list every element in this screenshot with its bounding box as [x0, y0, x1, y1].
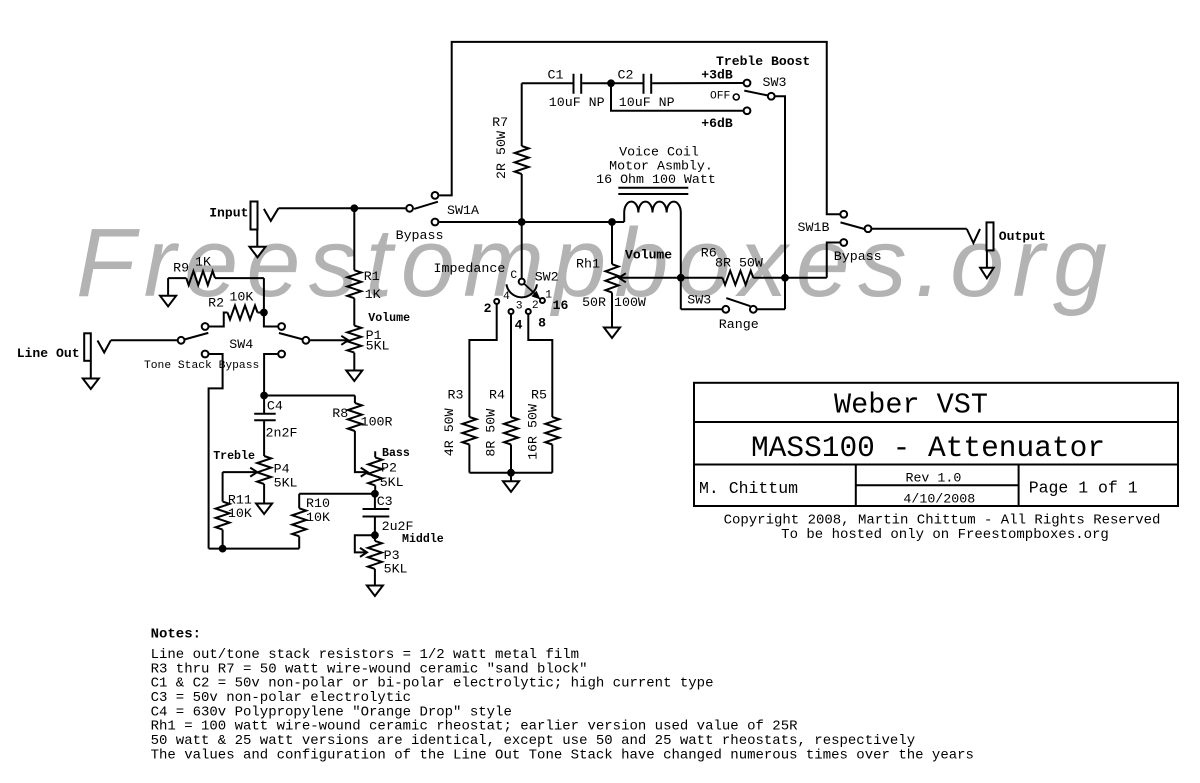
svg-text:10uF NP: 10uF NP — [549, 95, 605, 110]
svg-text:R4: R4 — [489, 388, 505, 403]
svg-text:4: 4 — [503, 291, 510, 303]
wire R5 bottom lead — [551, 445, 553, 473]
potentiometer P1 — [347, 326, 361, 353]
svg-text:4/10/2008: 4/10/2008 — [903, 491, 975, 506]
resistor R6 — [723, 271, 754, 285]
wire R9 to R2 junction — [263, 278, 265, 312]
svg-text:Bass: Bass — [382, 447, 410, 460]
wire SW1B common to output — [871, 228, 966, 230]
wire line out to SW4 — [111, 339, 177, 341]
svg-text:5KL: 5KL — [366, 339, 390, 354]
wire R11 bottom lead — [222, 530, 224, 549]
svg-text:8R 50W: 8R 50W — [715, 256, 763, 271]
node R11/bottom rail junction — [219, 545, 226, 552]
svg-text:Tone Stack Bypass: Tone Stack Bypass — [144, 360, 259, 372]
svg-text:10K: 10K — [306, 510, 330, 525]
svg-text:The values and configuration o: The values and configuration of the Line… — [151, 747, 974, 763]
switch SW4 right lever — [279, 333, 304, 340]
svg-text:Rh1: Rh1 — [576, 257, 600, 272]
title block vertical divider right — [1018, 465, 1020, 507]
wire Rh1 wiper to R6 — [620, 277, 723, 279]
wire bottom rail to ground — [510, 473, 512, 482]
svg-text:C4: C4 — [267, 399, 283, 414]
node C4/R8 junction — [261, 392, 268, 399]
svg-text:2: 2 — [532, 300, 539, 312]
switch SW1A top contact — [432, 192, 439, 199]
switch SW2 pin 3 contact — [509, 309, 514, 314]
svg-text:10K: 10K — [229, 290, 253, 305]
jack J2 Line Out sleeve — [84, 333, 91, 361]
svg-text:C2: C2 — [618, 68, 634, 83]
svg-text:4R 50W: 4R 50W — [442, 408, 457, 456]
svg-text:5KL: 5KL — [274, 476, 298, 491]
wire SW3 range to R6 node — [757, 308, 785, 310]
jack J1 Input tip contact — [264, 208, 279, 221]
wire R4 bottom lead — [510, 445, 512, 473]
wire P4 wiper from R11 — [223, 471, 256, 473]
wire C3 bottom lead — [374, 517, 376, 536]
svg-text:Bypass: Bypass — [834, 249, 882, 264]
svg-text:2n2F: 2n2F — [266, 426, 298, 441]
wire P2 node to R10 — [299, 493, 375, 495]
svg-text:Bypass: Bypass — [396, 228, 444, 243]
svg-text:R2: R2 — [208, 296, 224, 311]
svg-text:16: 16 — [553, 298, 569, 313]
switch SW4 left common contact — [178, 337, 185, 344]
switch SW3 range right contact — [750, 306, 757, 313]
resistor R4 — [504, 417, 518, 445]
svg-text:SW4: SW4 — [229, 337, 253, 352]
wire P3 top lead — [374, 535, 376, 541]
node C3/P3 junction — [372, 532, 379, 539]
jack J3 Output tip contact — [967, 229, 980, 243]
wire input node to R1 — [353, 208, 355, 270]
node P2/C3/R10 junction — [372, 490, 379, 497]
svg-text:16R 50W: 16R 50W — [525, 404, 540, 460]
svg-text:1K: 1K — [365, 287, 381, 302]
svg-text:Treble: Treble — [213, 450, 255, 463]
svg-text:100R: 100R — [361, 415, 393, 430]
svg-text:R8: R8 — [332, 406, 348, 421]
switch SW3 range lever — [726, 298, 750, 306]
arrow P3 wiper — [360, 548, 367, 557]
wire R8 to P2 wiper — [355, 431, 367, 472]
wire R9 right lead — [215, 277, 264, 279]
resistor R5 — [545, 417, 559, 445]
svg-text:10uF NP: 10uF NP — [619, 95, 675, 110]
svg-text:MASS100 - Attenuator: MASS100 - Attenuator — [751, 431, 1105, 465]
wire voice coil left lead — [623, 213, 625, 223]
resistor R9 — [186, 271, 215, 285]
svg-text:SW3: SW3 — [687, 293, 711, 308]
node voice coil/Rh1 wiper junction — [677, 274, 684, 281]
svg-text:4: 4 — [515, 318, 523, 333]
potentiometer P3 — [368, 541, 382, 569]
ground below output jack — [986, 250, 988, 267]
switch SW1B lever — [841, 222, 865, 229]
switch SW2 wafer arc — [506, 284, 537, 297]
ground below P4 — [256, 504, 272, 515]
jack J2 Line Out tip contact — [98, 340, 111, 352]
switch SW1A common contact — [406, 205, 413, 212]
svg-text:SW3: SW3 — [763, 75, 787, 90]
switch SW3 +6dB contact — [744, 107, 751, 114]
wire R11 top lead — [222, 472, 224, 502]
switch SW4 left top contact — [202, 323, 209, 330]
node bottom rail/ground junction — [508, 469, 515, 476]
wire P1 wiper from SW4 — [310, 339, 347, 341]
wire voice coil right lead — [680, 213, 682, 310]
svg-text:+6dB: +6dB — [701, 116, 733, 131]
inductor voice coil winding — [624, 202, 681, 213]
svg-text:Page 1 of 1: Page 1 of 1 — [1029, 479, 1138, 498]
wire R3 R4 R5 bottom rail — [469, 472, 552, 474]
wire R1 to P1 — [353, 298, 355, 325]
svg-text:C3: C3 — [377, 494, 393, 509]
wire top loop from SW1A to SW1B — [439, 42, 840, 214]
wire R9 left lead — [168, 277, 186, 279]
rheostat Rh1 — [606, 264, 619, 292]
arrow P2 wiper — [361, 468, 368, 477]
capacitor C3 — [363, 508, 390, 510]
wire SW3 common down to R6 node — [775, 96, 785, 309]
svg-text:2R 50W: 2R 50W — [494, 131, 509, 179]
svg-text:R3: R3 — [448, 388, 464, 403]
resistor R11 — [216, 502, 230, 530]
capacitor C4 — [254, 413, 276, 415]
switch SW3 range left contact — [722, 306, 729, 313]
switch SW2 pin 4 contact — [494, 299, 499, 304]
svg-text:SW2: SW2 — [535, 270, 559, 285]
switch SW1A bypass contact — [432, 219, 439, 226]
switch SW3 lever — [744, 91, 767, 96]
wire P1 to ground — [353, 353, 355, 371]
wire R2 right lead — [258, 312, 264, 314]
svg-text:R7: R7 — [492, 115, 508, 130]
svg-text:Middle: Middle — [402, 533, 444, 546]
switch SW4 left lever — [184, 333, 208, 340]
wire SW2 pin3 to R4 — [510, 314, 512, 417]
node C1/C2 junction — [608, 80, 615, 87]
svg-text:Impedance: Impedance — [434, 261, 506, 276]
svg-text:16 Ohm 100 Watt: 16 Ohm 100 Watt — [596, 172, 716, 187]
wire R10 bottom lead — [298, 536, 300, 548]
wire C1/C2 junction to +6dB contact — [611, 83, 743, 111]
capacitor C1 — [573, 74, 575, 94]
node R6/SW3 junction — [782, 274, 789, 281]
node bypass/R7 junction — [518, 219, 525, 226]
wire C4 to P4 — [263, 420, 265, 456]
svg-text:8R 50W: 8R 50W — [484, 409, 499, 457]
svg-text:Volume: Volume — [368, 312, 410, 325]
wire R9 left to ground — [167, 278, 169, 296]
svg-text:SW1B: SW1B — [798, 220, 830, 235]
ground below P3 — [367, 586, 383, 597]
svg-text:C1: C1 — [548, 68, 564, 83]
svg-text:OFF: OFF — [710, 91, 730, 103]
switch SW2 pin 1 contact — [540, 298, 545, 303]
svg-text:M. Chittum: M. Chittum — [699, 479, 798, 498]
wire Rh1 top lead — [611, 222, 613, 264]
svg-text:+3dB: +3dB — [701, 68, 733, 83]
ground below P1 — [346, 371, 362, 382]
node bypass/Rh1 junction — [609, 219, 616, 226]
svg-text:R10: R10 — [306, 496, 330, 511]
svg-text:R5: R5 — [531, 388, 547, 403]
resistor R2 — [228, 306, 258, 320]
node input/R1 junction — [351, 205, 358, 212]
wire R7 top lead — [521, 83, 523, 146]
wire P3 wiper jog — [355, 535, 375, 552]
title block rev/date divider — [856, 484, 1019, 486]
svg-text:SW1A: SW1A — [447, 203, 479, 218]
switch SW3 common contact — [768, 93, 775, 100]
wire junction to SW4 right top contact — [264, 313, 278, 327]
switch SW2 rotor lever — [524, 284, 536, 295]
wire tone stack bottom rail — [209, 548, 300, 550]
wire to C1 — [522, 82, 573, 84]
wire R7 bottom lead — [521, 174, 523, 222]
svg-text:10K: 10K — [228, 506, 252, 521]
wire SW4 right bottom to C4 node — [264, 354, 278, 396]
title block row line 2 — [694, 464, 1178, 466]
wire bypass SW1A to voice coil — [439, 221, 624, 223]
switch SW1A lever — [414, 202, 438, 209]
ground below R9 — [160, 296, 176, 307]
arrow P1 wiper — [341, 336, 348, 345]
svg-text:Range: Range — [719, 317, 759, 332]
svg-text:Volume: Volume — [625, 248, 672, 263]
wire SW2 pin4 to R3 — [469, 304, 496, 417]
svg-text:Input: Input — [209, 206, 248, 221]
svg-text:2u2F: 2u2F — [382, 519, 414, 534]
svg-text:50R 100W: 50R 100W — [582, 295, 646, 310]
switch SW1B common contact — [865, 225, 872, 232]
wire SW4 left bottom to tone stack ground rail — [209, 354, 223, 549]
wire C2 to +3dB contact — [652, 82, 743, 84]
ground below line out jack — [90, 361, 92, 379]
switch SW4 right bottom contact — [278, 351, 285, 358]
title block row line 1 — [694, 421, 1178, 423]
arrow Rh1 wiper — [619, 273, 626, 282]
svg-text:To be hosted only on Freestomp: To be hosted only on Freestompboxes.org — [781, 527, 1109, 543]
svg-text:Output: Output — [999, 229, 1046, 244]
wire R6 node up to SW1B bypass — [827, 243, 840, 278]
svg-text:P4: P4 — [274, 462, 290, 477]
switch SW1B top contact — [840, 211, 847, 218]
wire C3 top lead — [374, 494, 376, 509]
wire voice coil to SW3 range — [681, 308, 723, 310]
svg-text:8: 8 — [538, 316, 546, 331]
jack J3 Output sleeve — [987, 222, 994, 250]
resistor R10 — [292, 508, 306, 536]
svg-text:Notes:: Notes: — [151, 627, 201, 643]
node R2/R9 junction — [261, 309, 268, 316]
wire P2 top stub — [374, 451, 376, 457]
wire R6 right lead — [753, 277, 826, 279]
wire P4 to ground — [263, 484, 265, 504]
svg-text:Rev 1.0: Rev 1.0 — [905, 470, 961, 485]
wire C4 node to R8 — [264, 395, 355, 397]
arrow P4 wiper — [250, 468, 257, 477]
capacitor C2 — [643, 74, 645, 94]
potentiometer P2 — [368, 457, 382, 485]
voice coil core lines — [618, 187, 688, 189]
jack J1 Input sleeve — [251, 202, 258, 230]
svg-text:Line Out: Line Out — [17, 346, 80, 361]
ground below input jack — [256, 230, 258, 247]
wire SW2 pin2 to R5 — [528, 314, 552, 417]
switch SW2 common contact — [519, 279, 525, 285]
wire input to SW1A — [278, 207, 405, 209]
title block outer frame — [694, 383, 1178, 506]
svg-text:2: 2 — [484, 301, 492, 316]
resistor R3 — [462, 417, 476, 445]
wire C4 top lead — [263, 396, 265, 414]
wire C1 to C2 — [582, 82, 642, 84]
potentiometer P4 — [257, 456, 271, 484]
wire R7 node to SW2 common — [521, 222, 523, 279]
svg-text:1: 1 — [545, 290, 552, 302]
svg-text:5KL: 5KL — [380, 475, 404, 490]
resistor R8 — [348, 403, 362, 431]
svg-text:R9: R9 — [173, 261, 189, 276]
wire P2 bottom lead — [374, 485, 376, 493]
svg-text:P2: P2 — [381, 461, 397, 476]
svg-text:Voice Coil: Voice Coil — [619, 145, 699, 160]
svg-text:Weber VST: Weber VST — [834, 389, 988, 422]
resistor R7 — [515, 146, 529, 174]
wire R2 left lead to SW4 — [209, 313, 227, 327]
resistor R1 — [347, 270, 361, 298]
wire P3 to ground — [374, 569, 376, 586]
wire R3 bottom lead — [468, 445, 470, 473]
svg-text:R1: R1 — [364, 269, 380, 284]
switch SW4 right common contact — [303, 337, 310, 344]
arrow SW2 rotor — [532, 292, 539, 299]
ground below Rh1 — [604, 328, 620, 339]
switch SW2 pin 2 contact — [526, 309, 531, 314]
switch SW3 +3dB contact — [744, 80, 751, 87]
switch SW1B bypass contact — [840, 239, 847, 246]
wire Rh1 bottom to ground — [611, 293, 613, 328]
svg-text:5KL: 5KL — [384, 562, 408, 577]
switch SW4 right top contact — [278, 323, 285, 330]
ground below R3 R4 R5 — [503, 481, 519, 492]
switch SW4 left bottom contact — [202, 351, 209, 358]
svg-text:3: 3 — [516, 301, 523, 313]
title block vertical divider left — [855, 465, 857, 507]
switch SW3 OFF contact — [733, 94, 739, 100]
svg-text:C: C — [510, 270, 517, 282]
svg-text:1K: 1K — [195, 255, 211, 270]
